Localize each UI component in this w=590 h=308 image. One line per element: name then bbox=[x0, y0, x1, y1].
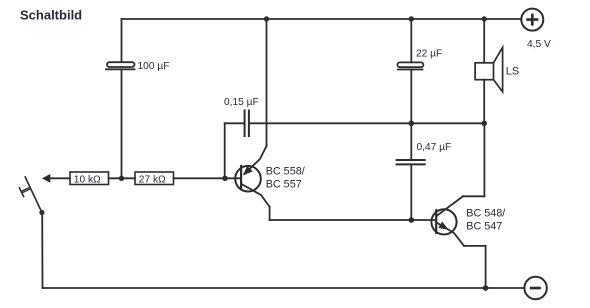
wire middle rail from C2 to speaker branch bbox=[250, 122, 484, 124]
wire Q2 emitter horizontal bbox=[464, 245, 486, 247]
node bottom rail / emitter junction bbox=[483, 285, 489, 291]
wire C3 branch lower bbox=[410, 70, 412, 123]
speaker LS body bbox=[475, 63, 493, 80]
wire C2 left stub bbox=[225, 122, 244, 124]
wire top supply rail bbox=[122, 18, 522, 20]
transistor Q2 emitter arrow (NPN, points out) bbox=[438, 222, 449, 230]
wire left vertical from capacitor C1 to resistor junction bbox=[121, 70, 123, 178]
svg-text:4,5 V: 4,5 V bbox=[527, 39, 551, 50]
wire Q1 emitter diagonal bbox=[245, 146, 267, 174]
wire lower rail from Q1 collector to Q2 base bbox=[270, 219, 437, 221]
resistor R2 27 kΩ body bbox=[135, 172, 174, 185]
wire C4 branch upper bbox=[410, 123, 412, 159]
wire Q2 emitter vertical to bottom rail bbox=[485, 246, 487, 288]
speaker LS cone bbox=[494, 47, 503, 91]
node middle rail / C3 branch bbox=[409, 121, 415, 127]
terminal - sign bbox=[530, 287, 541, 290]
wire switch to bottom rail bbox=[41, 213, 43, 289]
transistor Q2 collector diagonal bbox=[437, 196, 464, 216]
node R1/R2/C1 junction bbox=[119, 176, 124, 181]
svg-text:0,47 µF: 0,47 µF bbox=[417, 142, 452, 153]
node top rail / C3 branch bbox=[409, 16, 414, 21]
capacitor C2 0,15 µF left plate bbox=[244, 111, 246, 137]
svg-text:0,15 µF: 0,15 µF bbox=[224, 97, 259, 108]
terminal - circle bbox=[524, 277, 546, 299]
terminal + sign bbox=[526, 14, 538, 26]
svg-text:BC 547: BC 547 bbox=[466, 221, 502, 233]
transistor Q1 emitter arrow (PNP, points to base) bbox=[243, 166, 253, 176]
svg-text:Schaltbild: Schaltbild bbox=[20, 8, 82, 23]
wire R2 to base of Q1 bbox=[174, 177, 242, 179]
capacitor C1 100 µF top plate bbox=[107, 62, 135, 67]
wire Q1 emitter vertical bbox=[266, 19, 268, 146]
node base junction of Q1 bbox=[222, 176, 227, 181]
wire speaker branch lower bbox=[483, 80, 485, 124]
capacitor C1 100 µF bottom plate bbox=[106, 68, 135, 70]
transistor Q1 BC558 circle bbox=[235, 166, 261, 192]
svg-text:BC 548/: BC 548/ bbox=[466, 208, 505, 220]
capacitor C4 0,47 µF bottom plate bbox=[397, 163, 425, 165]
svg-text:LS: LS bbox=[506, 66, 519, 78]
transistor Q2 emitter diagonal bbox=[437, 223, 465, 246]
svg-text:100 µF: 100 µF bbox=[138, 61, 170, 72]
wire C4 branch lower bbox=[410, 165, 412, 220]
wire left vertical from top rail to capacitor C1 bbox=[121, 19, 123, 62]
transistor Q1 collector diagonal bbox=[242, 184, 270, 207]
node switch bottom junction bbox=[39, 210, 44, 215]
terminal + circle bbox=[521, 9, 543, 31]
node top rail / Q1 emitter branch bbox=[264, 16, 269, 21]
svg-text:BC 558/: BC 558/ bbox=[266, 165, 305, 177]
wire bottom rail bbox=[43, 287, 525, 289]
svg-text:22 µF: 22 µF bbox=[416, 49, 442, 60]
capacitor C3 22 µF bottom plate bbox=[398, 69, 423, 71]
resistor R1 10 kΩ body bbox=[70, 172, 109, 185]
transistor Q1 base bar bbox=[240, 166, 242, 188]
transistor Q2 BC548 circle bbox=[431, 209, 456, 234]
switch S1 stem line 1 bbox=[22, 188, 30, 192]
capacitor C4 0,47 µF top plate bbox=[397, 159, 425, 161]
node middle rail / speaker branch bbox=[481, 121, 487, 127]
switch S1 crossbar bbox=[19, 188, 23, 197]
svg-text:10 kΩ: 10 kΩ bbox=[74, 174, 101, 185]
wire Q1 collector corner bbox=[269, 207, 271, 220]
switch S1 stem line 2 bbox=[22, 189, 30, 193]
node top rail / speaker branch bbox=[482, 16, 487, 21]
switch S1 arrow head bbox=[42, 174, 50, 183]
capacitor C3 22 µF top plate bbox=[397, 62, 423, 67]
capacitor C2 0,15 µF right plate bbox=[248, 111, 250, 137]
wire Q2 collector vertical bbox=[483, 123, 485, 196]
wire C3 branch upper bbox=[410, 19, 412, 62]
wire C2 left branch vertical bbox=[224, 123, 226, 178]
node lower rail / C4 branch bbox=[409, 217, 415, 223]
switch S1 lever bbox=[25, 177, 42, 212]
wire Q2 collector horizontal bbox=[463, 195, 484, 197]
wire between R1 and R2 bbox=[109, 177, 136, 179]
wire switch arrow shaft bbox=[49, 177, 70, 179]
transistor Q2 base bar bbox=[435, 210, 437, 233]
svg-text:BC 557: BC 557 bbox=[266, 178, 302, 190]
wire speaker branch upper bbox=[483, 19, 485, 63]
svg-text:27 kΩ: 27 kΩ bbox=[139, 174, 166, 185]
